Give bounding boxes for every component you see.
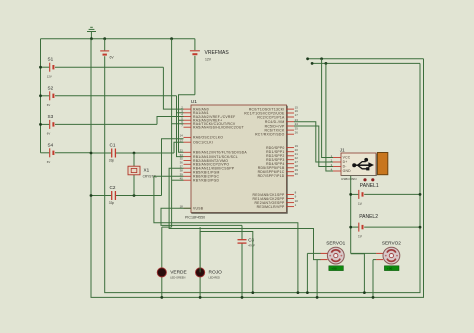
wire servo2 lower — [373, 259, 376, 261]
svg-text:47uF: 47uF — [248, 244, 255, 248]
svg-text:USBCONN: USBCONN — [341, 177, 356, 181]
svg-text:PANEL1: PANEL1 — [360, 183, 379, 189]
junction — [419, 226, 422, 229]
pin 13 OSC1/CLKI — [180, 138, 213, 144]
pin 14 RA6/OSC2/CLKO — [180, 134, 224, 140]
svg-text:OSC1/CLKI: OSC1/CLKI — [193, 141, 213, 145]
battery S4 6V — [41, 142, 92, 164]
pin 35 RB2/AN8/INT2/VMO — [180, 157, 229, 163]
svg-text:VUSB: VUSB — [193, 207, 204, 211]
svg-text:LED-GREEN: LED-GREEN — [170, 276, 185, 280]
svg-text:17: 17 — [295, 113, 299, 117]
junction — [306, 291, 309, 294]
pin 10 RE2/AN7/OESPP — [254, 199, 298, 205]
capacitor C3 47uF — [238, 225, 256, 297]
capacitor C2 33p — [91, 185, 162, 205]
svg-text:RC7/RX/DT/SDO: RC7/RX/DT/SDO — [255, 133, 285, 137]
pin 23 RC4/D-/VM — [265, 118, 298, 124]
pin 2 D+ — [331, 158, 348, 164]
svg-text:SERVO2: SERVO2 — [382, 241, 401, 246]
pin 7 RA5/AN4/SS/HLVDIN/C2OUT — [181, 123, 244, 129]
svg-text:VCC: VCC — [343, 156, 351, 160]
battery S1 12V — [41, 57, 164, 79]
wire inner loop — [105, 63, 420, 292]
svg-text:6V: 6V — [47, 132, 51, 136]
wire VREF branch to RB0 — [179, 120, 184, 152]
wire RC4 to D+ — [294, 122, 333, 162]
pin 17 RC2/CCP1/P1A — [257, 113, 298, 119]
svg-text:RA6/OSC2/CLKO: RA6/OSC2/CLKO — [193, 136, 223, 140]
wire servo1 upper gnd drop — [306, 253, 308, 292]
junction — [170, 37, 173, 40]
wire RB4 run — [169, 168, 321, 259]
junction — [349, 226, 352, 229]
svg-text:RD7/SPP7/P1D: RD7/SPP7/P1D — [258, 174, 285, 178]
svg-text:D-: D- — [343, 165, 347, 169]
connector J1 USBCONN — [340, 148, 388, 181]
capacitor C1 33p — [91, 142, 174, 162]
junction — [39, 66, 42, 69]
pin 16 RC1/T1OSI/CCP2/UOE — [244, 109, 298, 115]
svg-text:D+: D+ — [343, 160, 348, 164]
junction — [251, 291, 254, 294]
svg-text:J1: J1 — [340, 148, 345, 153]
svg-text:30: 30 — [295, 172, 299, 176]
pin 29 RD6/SPP6/P1C — [258, 168, 299, 174]
svg-text:+90: +90 — [387, 268, 393, 271]
svg-text:C1: C1 — [110, 142, 116, 147]
LED ROJO LED-RED — [196, 227, 223, 297]
svg-text:C2: C2 — [110, 185, 116, 190]
svg-text:C3: C3 — [248, 238, 254, 243]
wire servo2 upper — [351, 252, 377, 254]
wire LED1 hookup — [162, 226, 172, 228]
unconnected pad — [363, 178, 366, 181]
wire panel chain vertical — [350, 176, 352, 253]
svg-text:6V: 6V — [47, 160, 51, 164]
pin 1 VCC — [331, 154, 351, 160]
pin 5 RA3/AN3/VREF+ — [181, 116, 222, 122]
junction — [160, 296, 163, 299]
pin 30 RD7/SPP7/P1D — [258, 172, 299, 178]
battery B1 6V — [100, 39, 114, 64]
battery PANEL1 1V — [351, 183, 420, 206]
wire servo1 lower gnd — [316, 260, 318, 298]
junction — [316, 296, 319, 299]
svg-text:S1: S1 — [48, 57, 54, 62]
pin 8 RE0/AN5/CK1SPP — [253, 191, 297, 197]
pin 20 RD1/SPP1 — [266, 148, 298, 154]
wire VREFMAS to RA3 — [179, 95, 195, 121]
wire LED2 hookup — [200, 232, 253, 293]
wire RB7 to LED riser — [172, 179, 184, 181]
svg-text:26: 26 — [295, 130, 299, 134]
wire left chain vertical — [40, 39, 42, 153]
pin 4 RA2/AN2/VREF-/CVREF — [181, 113, 235, 119]
svg-text:14: 14 — [180, 134, 184, 138]
svg-text:U1: U1 — [191, 99, 197, 105]
pin 4 GND — [331, 167, 352, 173]
junction — [372, 296, 375, 299]
wire S1 to RA0 — [163, 67, 183, 109]
svg-text:PANEL2: PANEL2 — [359, 214, 378, 220]
svg-text:S2: S2 — [48, 85, 54, 90]
motor SERVO1 — [321, 241, 346, 271]
junction — [363, 291, 366, 294]
ground — [87, 27, 96, 38]
pin 19 RD0/SPP0 — [266, 144, 298, 150]
wire servo1 upper — [307, 252, 320, 254]
svg-text:6V: 6V — [110, 56, 115, 60]
wire S2 branch to RB1 — [177, 113, 184, 157]
pin 3 RA1/AN1 — [181, 109, 209, 115]
pin 1 RE3/MCLR/VPP — [257, 203, 297, 209]
junction — [90, 152, 93, 155]
junction — [133, 152, 136, 155]
junction — [325, 62, 328, 65]
junction — [311, 62, 314, 65]
svg-text:VERDE: VERDE — [170, 270, 187, 276]
LED VERDE LED-GREEN — [157, 227, 187, 297]
wire panel gnd to rail — [351, 254, 365, 293]
svg-text:6V: 6V — [47, 103, 51, 107]
pin 22 RD3/SPP3 — [266, 156, 298, 162]
pin 6 RA4/T0CKI/C1OUT/RCV — [181, 120, 236, 126]
junction — [199, 296, 202, 299]
svg-text:13: 13 — [180, 138, 184, 142]
junction — [39, 123, 42, 126]
wire OSC2 — [162, 139, 184, 196]
svg-text:S3: S3 — [48, 114, 54, 119]
pin 38 RB5/KBI1/PGM — [180, 169, 220, 175]
svg-text:40: 40 — [180, 176, 184, 180]
svg-text:SERVO1: SERVO1 — [326, 241, 345, 246]
USB trident icon — [352, 158, 374, 170]
pin 25 RC6/TX/CK — [265, 126, 299, 132]
battery S3 6V — [41, 114, 158, 136]
pin 2 RA0/AN0 — [181, 105, 209, 111]
junction — [241, 296, 244, 299]
svg-text:PIC18F4550: PIC18F4550 — [185, 215, 205, 219]
op: IC body U1 — [185, 99, 287, 220]
wire ground loop outer — [91, 39, 424, 298]
svg-text:33p: 33p — [109, 201, 115, 205]
svg-text:GND: GND — [343, 169, 352, 173]
wire S2 to RA1 — [177, 96, 184, 113]
pin 15 RC0/T1OSO/T13CKI — [249, 105, 298, 111]
svg-text:LED-RED: LED-RED — [209, 276, 221, 280]
node stub — [308, 58, 424, 60]
svg-text:RC2/CCP1/P1A: RC2/CCP1/P1A — [257, 115, 285, 119]
wire RA4 riser continues to LED node — [171, 124, 173, 227]
pin 28 RD5/SPP5/P1B — [258, 164, 298, 170]
motor SERVO2 — [376, 241, 401, 271]
wire RB6 run — [154, 176, 298, 292]
pin 24 RC5/D+/VP — [265, 122, 299, 128]
wire top rail to RA4 — [172, 39, 184, 124]
wire to USB VCC — [322, 59, 333, 158]
pin 3 D- — [331, 163, 347, 169]
wire OSC1 — [174, 142, 184, 153]
pin 18 VUSB — [180, 205, 204, 211]
svg-text:S4: S4 — [48, 142, 54, 147]
unconnected pad — [371, 178, 374, 181]
pin 34 RB1/AN10/INT1/SCK/SCL — [180, 153, 238, 159]
pin 9 RE1/AN6/CK2SPP — [253, 195, 297, 201]
wire top rail — [41, 38, 195, 40]
pin 37 RB4/AN11/KBI0/CSSPP — [180, 164, 235, 170]
svg-text:RE3/MCLR/VPP: RE3/MCLR/VPP — [257, 205, 285, 209]
junction — [90, 194, 93, 197]
pin 21 RD2/SPP2 — [266, 152, 298, 158]
svg-text:ROJO: ROJO — [209, 270, 223, 276]
junction — [419, 193, 422, 196]
wire servo2 gnd drop — [372, 260, 374, 298]
wire2 — [312, 62, 420, 64]
svg-text:RB7/KBI3/PGD: RB7/KBI3/PGD — [193, 179, 219, 183]
junction — [39, 94, 42, 97]
pin 36 RB3/AN9/CCP2/VPO — [180, 161, 230, 167]
svg-text:RA5/AN4/SS/HLVDIN/C2OUT: RA5/AN4/SS/HLVDIN/C2OUT — [193, 126, 244, 130]
pin 26 RC7/RX/DT/SDO — [255, 130, 298, 136]
battery S2 6V — [41, 85, 177, 107]
junction — [103, 37, 106, 40]
wire S3 to RA2 — [157, 117, 184, 125]
svg-text:12V: 12V — [205, 58, 212, 62]
junction — [349, 193, 352, 196]
junction — [133, 194, 136, 197]
pin 33 RB0/AN12/INT0/FLT0/SDI/SDA — [180, 149, 248, 155]
wire to USB GND — [326, 63, 333, 171]
crystal X1 — [128, 153, 157, 196]
wire VUSB — [161, 208, 242, 225]
battery VREFMAS 12V — [190, 39, 229, 95]
svg-text:VREFMAS: VREFMAS — [205, 50, 230, 56]
battery PANEL2 1V — [351, 214, 420, 238]
wire RC5 to D- — [294, 126, 333, 167]
pin 39 RB6/KBI2/PGC — [180, 173, 220, 179]
junction — [297, 291, 300, 294]
pin 27 RD4/SPP4 — [266, 160, 298, 166]
junction — [306, 57, 309, 60]
junction — [320, 57, 323, 60]
svg-text:+90: +90 — [331, 268, 337, 271]
junction — [90, 37, 93, 40]
pin 40 RB7/KBI3/PGD — [180, 176, 220, 182]
svg-text:12V: 12V — [47, 75, 52, 79]
svg-text:X1: X1 — [144, 168, 150, 173]
svg-text:33p: 33p — [109, 158, 115, 162]
